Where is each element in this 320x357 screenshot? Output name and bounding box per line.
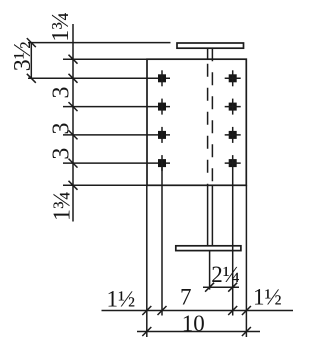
plate bottom extension line — [63, 184, 147, 186]
svg-text:1½: 1½ — [253, 284, 282, 309]
dimension line bottom first — [102, 310, 294, 312]
svg-text:3: 3 — [48, 87, 74, 99]
gusset plate — [147, 59, 246, 185]
plate right edge extension line — [245, 185, 247, 337]
tick marks vertical chain — [27, 38, 78, 190]
hidden web dashed line right — [211, 59, 213, 185]
bolt row extension line 1 — [28, 77, 170, 79]
bolt row extension line 2 — [63, 106, 170, 108]
svg-text:3: 3 — [48, 148, 74, 160]
svg-text:1¾: 1¾ — [48, 12, 74, 42]
bottom beam flange — [176, 246, 241, 251]
svg-text:3½: 3½ — [10, 41, 36, 71]
bottom beam web right line — [211, 185, 213, 246]
bolt row extension line 4 — [63, 162, 170, 164]
tick marks horizontal chains — [142, 283, 251, 336]
top beam web stem left line — [207, 48, 209, 59]
bolt gauge extension line right — [232, 155, 234, 315]
bolt row extension line 3 — [63, 134, 170, 136]
bottom web center extension line — [209, 251, 211, 290]
flange top extension line — [28, 42, 171, 44]
svg-text:3: 3 — [48, 123, 74, 135]
top beam web stem right line — [211, 48, 213, 59]
dimension line 2quarter — [203, 286, 239, 288]
hidden web dashed line left — [207, 59, 209, 185]
vertical dimension line 3half — [30, 43, 32, 79]
bottom beam web left line — [207, 185, 209, 246]
svg-text:1¾: 1¾ — [49, 191, 75, 221]
svg-text:1½: 1½ — [107, 287, 136, 312]
svg-text:7: 7 — [180, 285, 192, 310]
svg-text:2¼: 2¼ — [211, 262, 240, 287]
plate top extension line — [63, 58, 147, 60]
bolt cross arms right column — [225, 70, 241, 163]
dimension line bottom overall — [137, 331, 260, 333]
vertical dimension line main — [72, 24, 74, 222]
bolt gauge extension line left — [161, 163, 163, 315]
plate left edge extension line — [146, 185, 148, 337]
bolt cross arms left column — [161, 70, 163, 171]
svg-text:10: 10 — [182, 311, 205, 336]
top beam flange — [177, 43, 244, 48]
bolts — [158, 74, 237, 167]
